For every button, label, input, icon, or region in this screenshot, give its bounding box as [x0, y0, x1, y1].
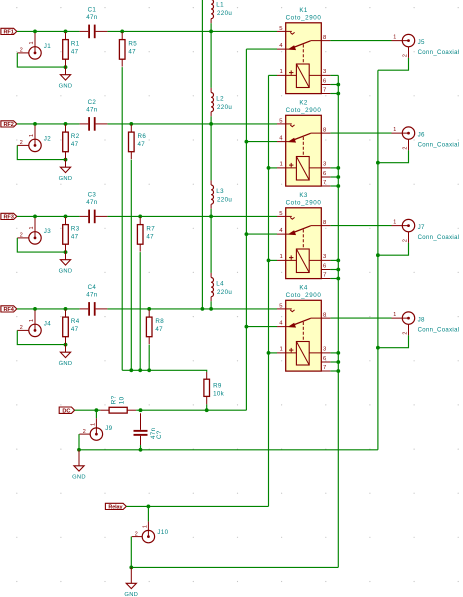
svg-text:1: 1 [29, 134, 35, 137]
wire J2 pin 2 to ground [17, 145, 65, 159]
wire RF3 row left segment [17, 215, 80, 217]
svg-text:K1: K1 [299, 7, 307, 14]
node RF4 / L4 junction [209, 307, 213, 311]
svg-text:Coto_2900: Coto_2900 [286, 292, 322, 299]
svg-text:GND: GND [59, 83, 73, 89]
svg-text:2: 2 [403, 332, 409, 335]
svg-text:4: 4 [279, 43, 283, 49]
capacitor C3 47n [80, 192, 108, 224]
node DC / J9 pin 1 junction [95, 408, 99, 412]
svg-text:2: 2 [20, 232, 23, 238]
wire relay K3 pin 7 to gnd bus [330, 278, 338, 280]
wire vertical bus at x=202 (top feed) [201, 0, 203, 309]
svg-text:6: 6 [323, 78, 327, 84]
svg-text:10k: 10k [213, 391, 225, 398]
svg-text:8: 8 [323, 127, 327, 133]
svg-text:6: 6 [323, 356, 327, 362]
wire L4 to RF4 [210, 301, 212, 309]
svg-text:RF1: RF1 [4, 30, 14, 36]
relay K4 Coto_2900 [277, 285, 330, 371]
svg-text:1: 1 [393, 127, 396, 133]
svg-text:2: 2 [20, 325, 23, 331]
node K1 pin 7 junction [336, 92, 340, 96]
svg-text:6: 6 [323, 263, 327, 269]
node DC / C? junction [139, 408, 143, 412]
node RF2 / J2 pin 1 junction [33, 122, 37, 126]
node K3 pin 3 junction [336, 259, 340, 263]
wire RF4 row left segment [17, 308, 80, 310]
node K2 pin 4 junction [245, 140, 249, 144]
node bus / R6 junction [129, 368, 133, 372]
svg-text:Coto_2900: Coto_2900 [286, 14, 322, 21]
connector J6 Conn_Coaxial [392, 127, 460, 151]
node K1 pin 6 junction [336, 83, 340, 87]
inductor L4 220u [211, 273, 232, 301]
svg-text:GND: GND [59, 361, 73, 367]
svg-text:R3: R3 [71, 225, 80, 232]
capacitor C1 47n [80, 7, 108, 39]
node RF4 / R8 junction [147, 307, 151, 311]
svg-text:47: 47 [138, 141, 146, 148]
wire RF1 to L2 [210, 31, 212, 88]
wire relay K1 pin 1 to coil bus [269, 74, 278, 76]
node bus202 / RF4 junction [201, 307, 205, 311]
wire relay coil ground return [131, 566, 338, 568]
svg-text:2: 2 [83, 429, 86, 435]
connector J4 Conn_Coaxial [17, 310, 51, 336]
wire RF1 row right segment [107, 30, 277, 32]
node J6 pin 2 junction [376, 161, 380, 165]
svg-text:1: 1 [29, 227, 35, 230]
svg-text:1: 1 [91, 423, 97, 426]
wire relay K3 pin 6 to gnd bus [330, 269, 338, 271]
svg-text:220u: 220u [217, 289, 232, 296]
node RF2 / R6 junction [129, 122, 133, 126]
svg-text:GND: GND [59, 268, 73, 274]
svg-text:C?: C? [156, 430, 163, 439]
svg-text:1: 1 [280, 347, 283, 353]
wire Relay label to coil bus [126, 505, 268, 507]
wire RF2 row right segment [107, 123, 277, 125]
wire J5 pin 2 to shield bus [378, 58, 409, 70]
resistor R6 47 [129, 125, 147, 160]
svg-text:C4: C4 [88, 284, 97, 291]
inductor L3 220u [211, 180, 232, 208]
node K4 pin 1 junction [267, 351, 271, 355]
svg-text:R2: R2 [71, 133, 80, 140]
ground [72, 450, 86, 481]
wire vertical bus relay commons (pins 4) to DC [245, 49, 247, 410]
wire relay K3 pin 8 to J7 [330, 225, 391, 227]
wire relay K4 pin 8 to J8 [330, 317, 391, 319]
node K2 pin 1 junction [267, 166, 271, 170]
connector J9 Conn_Coaxial [79, 418, 112, 440]
svg-text:J9: J9 [105, 425, 112, 432]
node R1 bottom / ground junction [64, 65, 68, 69]
svg-text:R5: R5 [128, 40, 137, 47]
wire C? to ground wire [140, 445, 142, 450]
wire RF1 row left segment [17, 30, 80, 32]
node C? ground junction [139, 448, 143, 452]
svg-text:47: 47 [71, 141, 79, 148]
wire relay K2 pin 3 to gnd bus [330, 167, 338, 169]
svg-text:7: 7 [323, 365, 326, 371]
wire RF3 to L4 [210, 216, 212, 273]
svg-text:6: 6 [323, 171, 327, 177]
capacitor C? 47n [134, 413, 163, 445]
svg-text:220u: 220u [217, 197, 232, 204]
resistor R4 47 [63, 310, 80, 345]
wire vertical bus relay coil+ (pins 1) to Relay net [268, 75, 270, 506]
node K2 pin 3 junction [336, 166, 340, 170]
node J8 pin 2 junction [376, 346, 380, 350]
svg-text:3: 3 [323, 69, 327, 75]
svg-text:47: 47 [71, 233, 79, 240]
svg-text:R9: R9 [213, 383, 222, 390]
inductor L1 220u [211, 0, 232, 23]
svg-text:GND: GND [124, 592, 138, 597]
node RF3 / L3 junction [209, 215, 213, 219]
capacitor C4 47n [80, 284, 108, 316]
svg-text:L1: L1 [216, 2, 224, 9]
relay K3 Coto_2900 [277, 192, 330, 278]
node RF3 / R3 junction [64, 215, 68, 219]
wire relay K1 pin 8 to J5 [330, 40, 391, 42]
svg-text:8: 8 [323, 35, 327, 41]
wire R6 to resistor bus [130, 160, 132, 371]
resistor R3 47 [63, 217, 80, 252]
wire J9 pin 2 to ground wire [78, 434, 80, 450]
node Relay / J10 pin 1 junction [147, 505, 151, 509]
wire relay K2 pin 6 to gnd bus [330, 176, 338, 178]
resistor R1 47 [63, 32, 80, 67]
wire relay K2 pin 7 to gnd bus [330, 185, 338, 187]
node RF1 / J1 pin 1 junction [33, 30, 37, 34]
svg-text:J10: J10 [157, 529, 168, 536]
connector J1 Conn_Coaxial [17, 33, 51, 59]
resistor R7 47 [137, 217, 155, 252]
wire DC label to R10 [75, 409, 101, 411]
svg-text:8: 8 [323, 312, 327, 318]
svg-text:3: 3 [323, 254, 327, 260]
wire relay K4 pin 4 to common bus [246, 326, 277, 328]
wire RF2 row left segment [17, 123, 80, 125]
svg-text:47: 47 [71, 48, 79, 55]
svg-text:Conn_Coaxial: Conn_Coaxial [418, 143, 460, 149]
svg-text:2: 2 [403, 147, 409, 150]
svg-text:L4: L4 [216, 281, 224, 288]
wire relay K3 pin 1 to coil bus [269, 259, 278, 261]
svg-text:10: 10 [118, 396, 125, 404]
svg-text:Coto_2900: Coto_2900 [286, 199, 322, 206]
node bus / R8 junction [147, 368, 151, 372]
svg-text:J8: J8 [418, 316, 425, 323]
svg-text:J4: J4 [44, 321, 51, 328]
svg-text:C2: C2 [88, 99, 97, 106]
svg-text:2: 2 [403, 54, 409, 57]
node K4 pin 3 junction [336, 351, 340, 355]
wire relay K1 pin 3 to gnd bus [330, 74, 338, 76]
node K4 pin 4 junction [245, 325, 249, 329]
node K3 pin 4 junction [245, 232, 249, 236]
svg-text:47: 47 [155, 326, 163, 333]
wire R10 to C? junction [136, 409, 140, 411]
node K4 pin 7 junction [336, 369, 340, 373]
svg-text:R6: R6 [138, 133, 147, 140]
node K2 pin 6 junction [336, 175, 340, 179]
wire relay K4 pin 3 to gnd bus [330, 352, 338, 354]
ground [59, 345, 73, 367]
svg-text:C3: C3 [88, 192, 97, 199]
svg-text:Conn_Coaxial: Conn_Coaxial [418, 235, 460, 241]
node RF3 / J3 pin 1 junction [33, 215, 37, 219]
svg-text:1: 1 [143, 525, 149, 528]
wire RF3 row right segment [107, 215, 277, 217]
node RF1 / R5 junction [120, 30, 124, 34]
svg-text:4: 4 [279, 228, 283, 234]
svg-text:7: 7 [323, 180, 326, 186]
svg-text:1: 1 [280, 254, 283, 260]
svg-text:J7: J7 [418, 224, 425, 231]
net label RF3 [1, 213, 17, 219]
connector J10 Conn_Coaxial [132, 521, 169, 542]
svg-text:1: 1 [393, 219, 396, 225]
wire relay K1 pin 6 to gnd bus [330, 84, 338, 86]
net label RF4 [1, 306, 17, 312]
wire J10 pin 1 stub [147, 506, 149, 521]
wire relay K2 pin 4 to common bus [246, 141, 277, 143]
svg-text:J2: J2 [44, 136, 51, 143]
node R9 / DC row junction [205, 408, 209, 412]
node K3 pin 7 junction [336, 277, 340, 281]
svg-text:Conn_Coaxial: Conn_Coaxial [418, 328, 460, 334]
svg-text:1: 1 [29, 42, 35, 45]
svg-text:4: 4 [279, 135, 283, 141]
wire J1 pin 2 to ground [17, 53, 65, 67]
svg-text:1: 1 [393, 34, 396, 40]
node RF4 / R4 junction [64, 307, 68, 311]
svg-text:C1: C1 [88, 7, 97, 14]
resistor R2 47 [63, 125, 80, 160]
net label RF1 [1, 28, 17, 34]
connector J2 Conn_Coaxial [17, 125, 51, 151]
svg-text:2: 2 [403, 239, 409, 242]
wire L1 to RF1 [210, 23, 212, 31]
wire J6 pin 2 to shield bus [378, 150, 409, 162]
svg-text:3: 3 [323, 162, 327, 168]
relay K1 Coto_2900 [277, 7, 330, 93]
wire relay K2 pin 1 to coil bus [269, 167, 278, 169]
svg-text:1: 1 [280, 69, 283, 75]
wire L2 to RF2 [210, 116, 212, 124]
wire shunt resistor bus [122, 370, 207, 372]
node J10 ground junction [129, 566, 133, 570]
node R2 bottom / ground junction [64, 158, 68, 162]
ground [59, 67, 73, 89]
wire J8 pin 2 to shield bus [378, 335, 409, 347]
wire relay K4 pin 6 to gnd bus [330, 361, 338, 363]
svg-text:DC: DC [62, 408, 70, 414]
connector J8 Conn_Coaxial [392, 312, 460, 336]
svg-text:Relay: Relay [108, 505, 123, 511]
svg-text:47: 47 [71, 326, 79, 333]
svg-text:RF4: RF4 [4, 307, 15, 313]
svg-text:47n: 47n [86, 107, 98, 114]
node J9 ground junction [77, 448, 81, 452]
svg-text:1: 1 [280, 162, 283, 168]
wire R5 to resistor bus [121, 67, 123, 370]
net label Relay [105, 503, 126, 509]
resistor R5 47 [119, 32, 137, 67]
node RF2 / L2 junction [209, 122, 213, 126]
svg-text:RF2: RF2 [4, 122, 14, 128]
svg-text:220u: 220u [217, 10, 232, 17]
wire DC row to relay common bus [141, 409, 247, 411]
svg-text:47n: 47n [86, 292, 98, 299]
svg-text:R4: R4 [71, 318, 80, 325]
wire vertical bus coax shields (J5-J8 pin 2) [377, 70, 379, 450]
node K3 pin 6 junction [336, 268, 340, 272]
wire relay K1 pin 4 to common bus [246, 48, 277, 50]
svg-text:RF3: RF3 [4, 215, 14, 221]
svg-text:R8: R8 [155, 318, 164, 325]
svg-text:47n: 47n [86, 14, 98, 21]
svg-text:3: 3 [323, 347, 327, 353]
wire relay K2 pin 8 to J6 [330, 132, 391, 134]
svg-text:L3: L3 [216, 188, 224, 195]
svg-text:1: 1 [393, 312, 396, 318]
wire L3 to RF3 [210, 209, 212, 217]
svg-text:K2: K2 [299, 100, 307, 107]
wire RF2 to L3 [210, 124, 212, 180]
wire relay K4 pin 1 to coil bus [269, 352, 278, 354]
resistor R8 47 [146, 310, 164, 345]
node J7 pin 2 junction [376, 253, 380, 257]
node RF1 / L1 junction [209, 30, 213, 34]
svg-text:47: 47 [146, 233, 154, 240]
svg-text:2: 2 [20, 47, 23, 53]
svg-text:4: 4 [279, 320, 283, 326]
net label RF2 [1, 121, 17, 127]
svg-text:R1: R1 [71, 40, 80, 47]
node K3 pin 1 junction [267, 259, 271, 263]
wire relay K4 pin 7 to gnd bus [330, 370, 338, 372]
wire relay K3 pin 3 to gnd bus [330, 259, 338, 261]
ground [124, 567, 138, 597]
wire J3 pin 2 to ground [17, 238, 65, 252]
wire vertical bus relay pins 3/6/7 to GND [337, 75, 339, 567]
ground [59, 160, 73, 182]
svg-text:2: 2 [20, 140, 23, 146]
node RF4 / J4 pin 1 junction [33, 307, 37, 311]
svg-text:J5: J5 [418, 39, 425, 46]
svg-text:GND: GND [59, 176, 73, 182]
wire J10 pin 2 to ground [130, 537, 132, 568]
svg-text:GND: GND [72, 475, 86, 481]
connector J5 Conn_Coaxial [392, 34, 460, 58]
svg-text:2: 2 [135, 531, 138, 537]
node R3 bottom / ground junction [64, 250, 68, 254]
wire R8 to resistor bus [148, 345, 150, 371]
relay K2 Coto_2900 [277, 100, 330, 186]
svg-text:47n: 47n [86, 199, 98, 206]
inductor L2 220u [211, 88, 232, 116]
svg-text:J1: J1 [44, 43, 51, 50]
resistor R? 10 (series DC feed) [100, 395, 136, 413]
wire R9 to DC row [206, 404, 208, 410]
node K4 pin 6 junction [336, 360, 340, 364]
node bus / R7 junction [138, 368, 142, 372]
wire J9 pin 1 stub [95, 410, 97, 418]
connector J3 Conn_Coaxial [17, 218, 51, 244]
wire relay K1 pin 7 to gnd bus [330, 93, 338, 95]
wire J7 pin 2 to shield bus [378, 243, 409, 255]
node R4 bottom / ground junction [64, 343, 68, 347]
svg-text:Coto_2900: Coto_2900 [286, 107, 322, 114]
wire J4 pin 2 to ground [17, 330, 65, 344]
wire relay K3 pin 4 to common bus [246, 233, 277, 235]
svg-text:7: 7 [323, 272, 326, 278]
svg-text:K4: K4 [299, 285, 307, 292]
net label DC [59, 407, 74, 413]
capacitor C2 47n [80, 99, 108, 131]
svg-text:K3: K3 [299, 192, 307, 199]
svg-text:L2: L2 [216, 96, 224, 103]
svg-text:J3: J3 [44, 228, 51, 235]
svg-text:8: 8 [323, 220, 327, 226]
resistor R9 10k [204, 372, 225, 404]
svg-text:47: 47 [128, 48, 136, 55]
node RF3 / R7 junction [138, 215, 142, 219]
wire RF4 row right segment [107, 308, 277, 310]
svg-text:R?: R? [111, 395, 118, 404]
wire R7 to resistor bus [139, 252, 141, 370]
svg-text:220u: 220u [217, 104, 232, 111]
svg-text:Conn_Coaxial: Conn_Coaxial [418, 50, 460, 56]
svg-text:J6: J6 [418, 131, 425, 138]
ground [59, 252, 73, 274]
node RF1 / R1 junction [64, 30, 68, 34]
svg-text:1: 1 [29, 319, 35, 322]
wire analog ground run [79, 449, 378, 451]
node K2 pin 7 junction [336, 184, 340, 188]
node RF2 / R2 junction [64, 122, 68, 126]
svg-text:R7: R7 [146, 225, 155, 232]
connector J7 Conn_Coaxial [392, 219, 460, 243]
svg-text:7: 7 [323, 87, 326, 93]
